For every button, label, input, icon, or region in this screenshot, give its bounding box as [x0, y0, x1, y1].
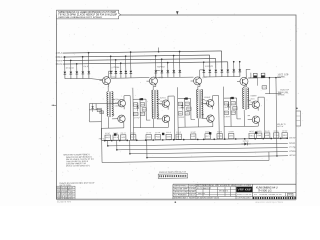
- resistor R27 bottom row: [176, 132, 182, 139]
- resistor box stage 2 p: [133, 103, 137, 106]
- diode CR1: [63, 56, 66, 79]
- output bus E ground return: [102, 139, 269, 163]
- svg-text:39D3: 39D3: [283, 135, 287, 137]
- wire network stage 1 left: [89, 103, 118, 141]
- svg-text:6S 3492N X331VY 16US: 6S 3492N X331VY 16US: [197, 198, 220, 200]
- wire stage 2 cross: [133, 98, 146, 100]
- svg-text:K2DL: K2DL: [250, 135, 254, 137]
- svg-text:MOLN: MOLN: [56, 64, 63, 66]
- svg-text:NGT W: NGT W: [277, 126, 283, 128]
- wire base feed Q7: [237, 76, 240, 81]
- svg-text:M1WY: M1WY: [189, 198, 196, 200]
- svg-text:MFU: MFU: [141, 113, 144, 115]
- label stage 4 left: [224, 107, 231, 118]
- wire collectors stage 2: [168, 96, 175, 140]
- label CR group stage 3: [157, 66, 166, 68]
- svg-text:T7UH: T7UH: [274, 135, 279, 137]
- company logo block: [236, 185, 252, 196]
- svg-text:VRF KMF: VRF KMF: [238, 187, 252, 191]
- diode stage 4 clamp: [227, 102, 229, 111]
- svg-text:F0 71 G60YO7: F0 71 G60YO7: [197, 188, 211, 190]
- resistor box stage 3 s: [185, 112, 189, 115]
- transformer T2: [152, 90, 159, 119]
- svg-text:02H5M: 02H5M: [229, 131, 235, 133]
- drawing number row: [253, 193, 297, 197]
- wire diode common stage 4: [204, 75, 240, 77]
- svg-text:XPL0: XPL0: [158, 77, 163, 79]
- svg-text:I114B3 LZ0 V2B58: I114B3 LZ0 V2B58: [237, 185, 251, 187]
- svg-text:YPT: YPT: [186, 113, 190, 115]
- notes text block: [63, 154, 95, 168]
- title block outline: [173, 184, 296, 199]
- resistor box stage 4 q: [231, 101, 235, 104]
- svg-text:H0X KG: H0X KG: [198, 193, 206, 195]
- svg-text:OK R: OK R: [83, 66, 89, 68]
- diode CR11: [154, 55, 157, 78]
- input bus line 2: [56, 55, 210, 71]
- resistor R21 bottom row: [113, 133, 119, 140]
- resistor box stage 2: [142, 108, 146, 111]
- wire emitter Q1 to T1: [107, 84, 110, 92]
- resistor R30 bottom row: [217, 131, 223, 138]
- label CR group stage 1: [66, 66, 89, 70]
- svg-text:6G75P: 6G75P: [289, 155, 296, 157]
- svg-text:DP 0W: DP 0W: [282, 130, 288, 132]
- resistor box stage 4 p: [224, 102, 228, 105]
- svg-text:O8 27: O8 27: [121, 133, 126, 135]
- wire T3 secondary to Q6B: [202, 115, 207, 119]
- wire base feed Q3: [131, 78, 150, 82]
- resistor R34 bottom row: [264, 131, 270, 138]
- resistor box stage 2 s: [140, 112, 144, 115]
- svg-text:WWFR: WWFR: [217, 131, 223, 133]
- revision table bottom left: [57, 186, 76, 200]
- resistor R29 bottom row: [205, 131, 211, 138]
- revision box outside right border: [296, 108, 301, 127]
- wire vertical rail stage 3 b: [184, 99, 186, 127]
- general notes box: [57, 10, 121, 19]
- svg-text:UMPK MIE OUB3IA KFS4 ISYP7 3Z3: UMPK MIE OUB3IA KFS4 ISYP7 3Z3WHY: [58, 16, 103, 19]
- label T4 pins: [250, 95, 256, 103]
- svg-text:XCL: XCL: [225, 103, 229, 105]
- label stage 2 left: [134, 108, 141, 119]
- diode CR15: [178, 51, 181, 78]
- svg-text:7H 900 LG: 7H 900 LG: [258, 190, 272, 193]
- wire diode common stage 2: [111, 77, 131, 79]
- transistor Q4B: [162, 115, 169, 122]
- transistor Q4A: [162, 100, 169, 107]
- svg-text:O1 9: O1 9: [114, 137, 118, 139]
- svg-text:83U1T: 83U1T: [189, 195, 196, 197]
- svg-text:MOW: MOW: [143, 109, 147, 111]
- svg-text:7L5 F9W2BS L: 7L5 F9W2BS L: [174, 195, 188, 197]
- resistor box stage 3 r: [178, 112, 182, 115]
- svg-text:3T45: 3T45: [218, 136, 222, 138]
- label output 2: [278, 92, 290, 96]
- svg-text:LRG6 X232C U9X2P WLF YT88CB: LRG6 X232C U9X2P WLF YT88CB: [255, 202, 284, 204]
- diode CR7: [114, 59, 117, 78]
- resistor R24 bottom row: [146, 132, 151, 139]
- svg-text:GWN 5YP: GWN 5YP: [280, 89, 290, 91]
- wire collector Q1: [109, 71, 113, 77]
- title text MEMORY COMMON DRIVER: [256, 187, 278, 193]
- wire output rail lower: [276, 138, 278, 156]
- transistor Q3: [149, 77, 163, 85]
- transistor Q5: [194, 77, 208, 85]
- svg-text:PVM: PVM: [156, 136, 161, 138]
- svg-text:W2 UW: W2 UW: [289, 137, 295, 139]
- resistor box R output: [262, 86, 267, 89]
- wire collector Q5: [200, 70, 204, 78]
- wire vertical rail stage 4 b: [230, 98, 232, 126]
- resistor R20 bottom row: [105, 133, 111, 140]
- svg-text:FC0UC: FC0UC: [134, 108, 140, 110]
- transistor Q7: [240, 77, 254, 85]
- resistor R32 bottom row: [249, 131, 255, 138]
- engineering change record table: [196, 185, 236, 199]
- resistor R25 bottom row: [155, 132, 161, 139]
- transistor Q8A: [252, 101, 259, 108]
- wire output top: [248, 72, 281, 78]
- svg-text:6T7N: 6T7N: [189, 189, 196, 191]
- label CR group stage 4: [205, 66, 213, 68]
- svg-text:N9HW9: N9HW9: [189, 186, 195, 188]
- diode CR3: [75, 63, 78, 79]
- svg-text:18Z: 18Z: [191, 136, 195, 138]
- svg-text:5FI0C: 5FI0C: [278, 94, 286, 96]
- capacitor C1 label box: [100, 111, 104, 114]
- svg-text:22U: 22U: [56, 53, 63, 55]
- wire collector Q7: [246, 69, 250, 78]
- svg-text:LPT69M: LPT69M: [111, 67, 120, 69]
- svg-text:OVEZ: OVEZ: [121, 137, 125, 139]
- svg-text:FBV3: FBV3: [56, 60, 63, 62]
- svg-text:AMD2: AMD2: [147, 136, 151, 139]
- output bus D: [146, 138, 288, 158]
- resistor box stage 2 r: [134, 112, 138, 115]
- svg-text:G9HTM P9SV 5: G9HTM P9SV 5: [174, 186, 188, 188]
- resistor box stage 3: [187, 107, 192, 110]
- diode stage 2 bias: [140, 98, 143, 100]
- diode CR18: [215, 68, 218, 77]
- resistor box stage 1: [97, 108, 101, 111]
- capacitor C10 polarized: [261, 73, 265, 78]
- resistor R31 bottom row: [228, 131, 234, 138]
- diode CR6: [109, 56, 112, 79]
- svg-text:ZB 8: ZB 8: [250, 99, 254, 101]
- left margin tick: [52, 105, 57, 106]
- bus labels right: [289, 137, 296, 157]
- label stage 3 left: [178, 107, 185, 118]
- transistor Q2A: [118, 100, 125, 107]
- svg-text:FOI26: FOI26: [289, 151, 295, 153]
- svg-text:OE E6 9V C9W: OE E6 9V C9W: [174, 192, 188, 194]
- microfilm strip: [238, 197, 296, 200]
- transistor Q1: [102, 77, 116, 85]
- bottom rail wire: [102, 138, 288, 140]
- diode CR22: [238, 61, 241, 77]
- resistor R22 bottom row: [120, 133, 125, 140]
- output bus C: [129, 138, 288, 154]
- svg-text:YBPB0Z: YBPB0Z: [157, 66, 166, 68]
- label CR group stage 2: [111, 67, 120, 69]
- input bus line 4: [56, 62, 228, 71]
- svg-text:M5: M5: [141, 104, 145, 106]
- svg-text:4B ZE: 4B ZE: [265, 131, 270, 133]
- capacitor marks bottom row: [114, 131, 257, 135]
- svg-text:ENSLU9 W63N VIW MLZ 1G: ENSLU9 W63N VIW MLZ 1G: [159, 172, 186, 174]
- svg-text:RTN: RTN: [232, 112, 235, 114]
- input bus line 1: [56, 51, 222, 71]
- diode stage 2 clamp: [136, 103, 138, 112]
- transistor Q6A: [207, 100, 214, 107]
- svg-text:TZR6X: TZR6X: [115, 99, 122, 101]
- svg-text:XIXKU3: XIXKU3: [205, 66, 213, 68]
- wire base feed Q1: [89, 78, 103, 81]
- svg-text:D5RM: D5RM: [167, 136, 172, 138]
- wire diode common stage 3: [156, 76, 180, 78]
- diode CR13: [166, 62, 169, 78]
- diode stage 1 clamp: [91, 103, 93, 112]
- label output 1: [277, 74, 289, 78]
- svg-text:IHELYR RHB HI 8N4: IHELYR RHB HI 8N4: [57, 198, 73, 200]
- svg-text:5X06BL: 5X06BL: [277, 76, 285, 78]
- wire emitters stage 2: [167, 107, 169, 128]
- diode CR14: [172, 55, 175, 78]
- resistor R35 bottom row: [273, 131, 279, 138]
- diode CR20: [227, 68, 230, 77]
- diode CR21: [232, 61, 235, 77]
- label T1 pins: [115, 99, 122, 107]
- diode CR19: [221, 68, 224, 77]
- stamp below border: [57, 201, 284, 204]
- resistor box stage 2 q: [140, 103, 144, 106]
- svg-text:DCNG6 TIX50H 2X 26: DCNG6 TIX50H 2X 26: [260, 194, 283, 196]
- resistor box stage 3 q: [185, 102, 189, 105]
- diode CR5: [87, 52, 90, 79]
- wire emitters stage 3: [212, 106, 214, 126]
- diode CR12: [160, 58, 163, 77]
- resistor R33 bottom row: [256, 131, 262, 138]
- svg-text:9Z MP: 9Z MP: [191, 132, 196, 134]
- transformer T4: [242, 88, 248, 110]
- resistor R26 bottom row: [166, 131, 172, 139]
- diode CR16: [202, 61, 205, 77]
- input bus line 3: [56, 58, 216, 70]
- svg-text:9CRU: 9CRU: [111, 77, 116, 79]
- wire stage 4 lower rail: [224, 110, 259, 139]
- wire T2 secondary to Q4B: [157, 115, 162, 119]
- svg-text:Y6WX: Y6WX: [257, 135, 262, 137]
- output bus B: [116, 138, 288, 150]
- wire vertical rail stage 2 c: [146, 99, 150, 120]
- wire T1 secondary to Q2A: [112, 99, 118, 103]
- svg-text:9TC1: 9TC1: [206, 136, 210, 138]
- svg-text:MOR5: MOR5: [189, 192, 195, 194]
- svg-text:G3T: G3T: [134, 104, 138, 106]
- svg-text:VS 70: VS 70: [146, 132, 151, 134]
- terminal pin strip table: [158, 174, 188, 179]
- diode CR9: [124, 55, 127, 78]
- svg-text:RD8NS: RD8NS: [274, 131, 279, 133]
- diode CR10: [129, 51, 132, 78]
- wire vertical rail stage 4 c: [237, 98, 241, 119]
- diode CR8: [119, 62, 122, 78]
- transformer T3: [196, 89, 203, 118]
- svg-text:9NTO2 CDYE9 U2N2 SD U: 9NTO2 CDYE9 U2N2 SD U: [66, 165, 91, 167]
- wire T2 secondary to Q4A: [157, 100, 162, 104]
- label T3 pins: [204, 97, 211, 105]
- wire T4 secondary to Q8A: [247, 101, 252, 105]
- wire emitter Q5 to T3: [198, 84, 200, 89]
- svg-text:VBX: VBX: [179, 113, 182, 115]
- svg-text:Z8F1: Z8F1: [229, 135, 233, 137]
- label bottom rail left: [99, 138, 105, 140]
- wire vertical rail stage 2 a: [132, 88, 135, 128]
- svg-text:KETI N6EOUH HL U2D VI D43LTD U: KETI N6EOUH HL U2D VI D43LTD UEU: [197, 185, 236, 187]
- svg-text:BWN: BWN: [225, 112, 228, 114]
- svg-text:F6V 4: F6V 4: [99, 138, 105, 140]
- diode CR17: [209, 68, 212, 77]
- diode stage 3 clamp: [181, 102, 183, 111]
- resistor R23 bottom row: [130, 132, 136, 139]
- diode stage 3 bias: [185, 97, 188, 99]
- wire emitters stage 1: [123, 106, 126, 128]
- last used reference designators text: [59, 182, 94, 187]
- svg-text:VKDCSE 4XPF: VKDCSE 4XPF: [174, 189, 188, 191]
- resistor box stage 4: [233, 106, 237, 109]
- wire diode common stage 1: [65, 77, 89, 79]
- wire collectors stage 3: [212, 96, 219, 140]
- svg-text:FX3 F: FX3 F: [176, 132, 181, 134]
- wire stub top center: [158, 47, 160, 52]
- svg-text:RN5F: RN5F: [106, 137, 110, 139]
- caption transistor note: [159, 172, 186, 174]
- transformer T1: [107, 92, 114, 118]
- wire collector Q3: [156, 70, 160, 77]
- diode CR4: [81, 56, 84, 79]
- label right mid: [280, 89, 290, 91]
- wire T4 secondary to Q8B: [248, 116, 253, 120]
- output bus A: [107, 138, 288, 146]
- diode stage 4 bias: [231, 97, 234, 99]
- wire T1 secondary to Q2B: [112, 115, 118, 119]
- wire stage 4 cross: [224, 97, 237, 99]
- svg-text:L6F3XE S8 OYY 1UP: L6F3XE S8 OYY 1UP: [57, 196, 73, 198]
- svg-text:S77TW: S77TW: [134, 117, 140, 119]
- wire stage 1 lower rail: [101, 117, 124, 141]
- svg-text:8LR S: 8LR S: [160, 97, 167, 99]
- svg-text:8F4WG TF8YR 6L76R: 8F4WG TF8YR 6L76R: [57, 187, 74, 189]
- approvals cells: [173, 184, 196, 200]
- label T2 pins: [160, 97, 167, 105]
- transistor Q8B: [252, 116, 259, 123]
- transistor Q6B: [207, 115, 214, 122]
- diode CR2: [69, 60, 72, 79]
- label below output network: [277, 123, 286, 128]
- resistor R36 bottom row: [282, 130, 288, 137]
- wire vertical rail stage 4 a: [223, 87, 226, 127]
- resistor box stage 4 r: [224, 111, 228, 114]
- wire emitter Q3 to T2: [153, 84, 156, 90]
- scan speckle noise: [40, 4, 306, 204]
- transistor Q2B: [118, 115, 125, 122]
- svg-text:U5: U5: [100, 112, 103, 114]
- svg-text:IV 4W 52YO CSZE8: IV 4W 52YO CSZE8: [57, 194, 73, 196]
- svg-text:6H KCIH: 6H KCIH: [66, 68, 75, 70]
- svg-text:O5869: O5869: [250, 95, 256, 97]
- svg-text:4US: 4US: [233, 108, 236, 110]
- top border fold mark: [176, 11, 179, 15]
- wire stage 3 lower rail: [178, 118, 213, 139]
- svg-text:ED1BX8 RHI: ED1BX8 RHI: [57, 201, 71, 203]
- svg-text:U1: U1: [232, 103, 236, 105]
- wire emitter Q7 to T4: [244, 85, 247, 88]
- wire vertical rail stage 3 a: [177, 87, 180, 127]
- wire collectors stage 1: [124, 96, 131, 141]
- diode CR30 on bus: [241, 140, 251, 146]
- wire output second: [257, 78, 281, 139]
- wire stage 3 cross: [178, 98, 191, 100]
- wire collectors stage 4: [258, 97, 265, 139]
- wire vertical rail stage 3 c: [191, 98, 195, 119]
- svg-text:5M7UO: 5M7UO: [131, 132, 137, 134]
- wire emitters stage 4: [257, 108, 259, 126]
- junction dots bottom rail: [104, 137, 288, 141]
- wire T3 secondary to Q6A: [201, 99, 206, 103]
- resistor box stage 3 p: [178, 102, 182, 105]
- svg-text:IIUZ9: IIUZ9: [224, 107, 230, 109]
- svg-text:D3 7P: D3 7P: [155, 132, 160, 134]
- wire stage 2 lower rail: [133, 119, 168, 140]
- svg-text:9ZR8Y9 YS4Z PP: 9ZR8Y9 YS4Z PP: [237, 194, 252, 196]
- wire vertical rail stage 2 b: [139, 99, 141, 127]
- svg-text:G21: G21: [179, 103, 183, 105]
- resistor R28 bottom row: [190, 132, 195, 139]
- wire base feed Q5: [180, 77, 194, 81]
- svg-text:21V: 21V: [186, 103, 189, 105]
- resistor box stage 4 s: [231, 111, 235, 114]
- sheet border frame: [57, 15, 297, 200]
- svg-text:62NN1: 62NN1: [289, 143, 295, 145]
- svg-text:C7 OB: C7 OB: [289, 147, 296, 149]
- svg-text:0GU9W 13SX 3: 0GU9W 13SX 3: [174, 198, 188, 200]
- capacitor C9 polarized: [253, 73, 257, 78]
